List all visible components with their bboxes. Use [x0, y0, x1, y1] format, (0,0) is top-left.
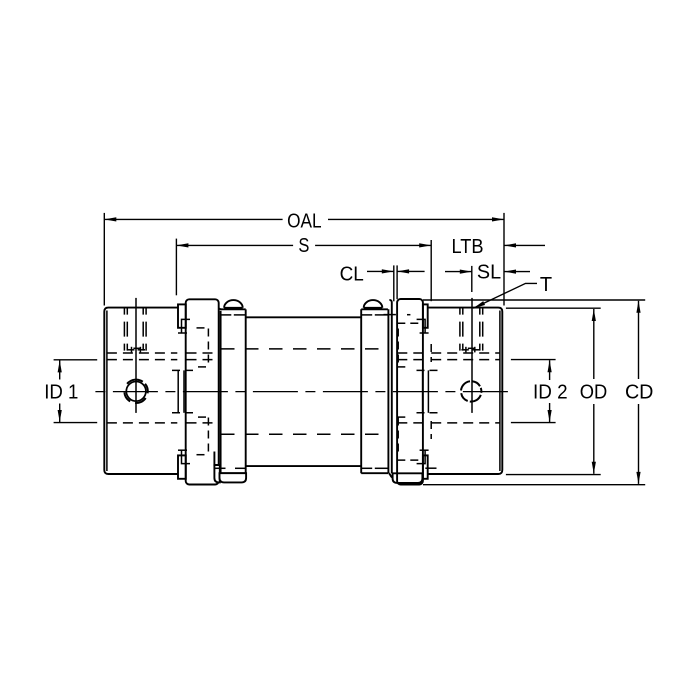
- svg-text:CL: CL: [340, 263, 364, 285]
- svg-text:LTB: LTB: [452, 236, 484, 258]
- svg-text:S: S: [298, 235, 309, 257]
- svg-text:OD: OD: [580, 382, 608, 404]
- svg-text:ID 1: ID 1: [44, 382, 78, 404]
- svg-text:T: T: [540, 274, 552, 296]
- svg-text:CD: CD: [625, 382, 654, 404]
- svg-text:SL: SL: [477, 262, 501, 284]
- svg-text:ID 2: ID 2: [533, 382, 568, 404]
- svg-text:OAL: OAL: [287, 210, 322, 232]
